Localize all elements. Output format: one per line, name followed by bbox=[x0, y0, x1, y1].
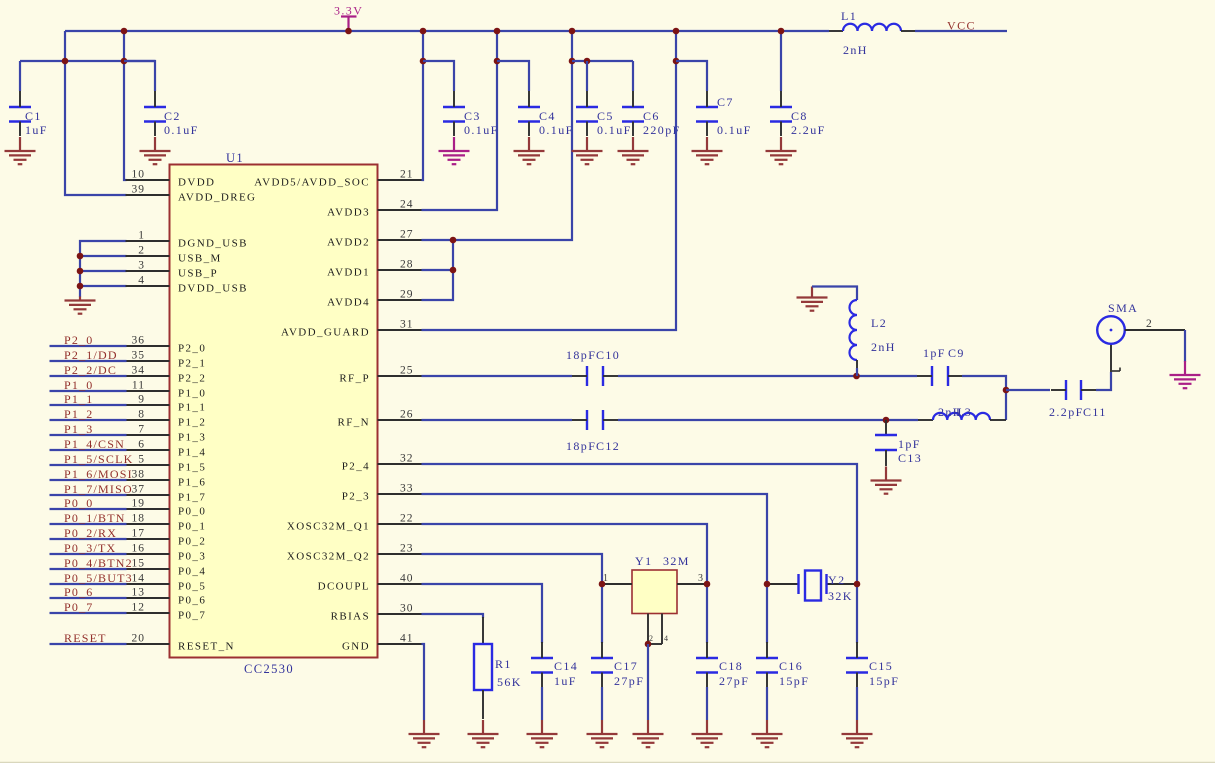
IC right pin stubs bbox=[378, 180, 422, 644]
svg-text:8: 8 bbox=[138, 409, 145, 421]
wire pin 28 to node bbox=[422, 269, 454, 271]
wire C11 to SMA bbox=[1096, 372, 1111, 390]
svg-text:XOSC32M_Q2: XOSC32M_Q2 bbox=[287, 551, 370, 563]
wire pin 41 to ground bbox=[422, 644, 425, 720]
connector SMA pin 1 stub bbox=[1110, 344, 1112, 372]
svg-text:1pF: 1pF bbox=[898, 437, 921, 451]
svg-text:XOSC32M_Q1: XOSC32M_Q1 bbox=[287, 521, 370, 533]
svg-text:L2: L2 bbox=[871, 316, 887, 330]
svg-text:0.1uF: 0.1uF bbox=[164, 123, 199, 137]
svg-text:18: 18 bbox=[132, 513, 146, 525]
svg-text:39: 39 bbox=[132, 184, 146, 196]
svg-text:L3: L3 bbox=[956, 405, 972, 419]
wire pin4 DVDD_USB bbox=[80, 285, 127, 287]
junction rail x781 bbox=[778, 28, 785, 35]
junction C5 bbox=[584, 58, 591, 65]
svg-text:15: 15 bbox=[132, 558, 146, 570]
svg-text:11: 11 bbox=[132, 380, 145, 392]
svg-text:P1_7: P1_7 bbox=[178, 492, 206, 504]
svg-text:P0_1: P0_1 bbox=[178, 521, 206, 533]
svg-text:AVDD_DREG: AVDD_DREG bbox=[178, 192, 256, 204]
svg-text:P0_0: P0_0 bbox=[178, 506, 206, 518]
svg-text:32: 32 bbox=[400, 453, 414, 465]
capacitor C13 bbox=[885, 420, 887, 435]
wire pin 21 to rail bbox=[422, 31, 424, 180]
svg-text:34: 34 bbox=[132, 365, 146, 377]
svg-text:P2_0: P2_0 bbox=[178, 343, 206, 355]
svg-text:23: 23 bbox=[400, 543, 414, 555]
svg-text:2nH: 2nH bbox=[843, 43, 868, 57]
svg-text:24: 24 bbox=[400, 199, 414, 211]
svg-text:C3: C3 bbox=[464, 109, 481, 123]
svg-text:AVDD2: AVDD2 bbox=[327, 237, 370, 249]
capacitor C6 bbox=[622, 107, 644, 122]
svg-text:P0_4: P0_4 bbox=[178, 566, 206, 578]
junction on rail at 3.3V bbox=[345, 28, 352, 35]
svg-text:6: 6 bbox=[138, 439, 145, 451]
svg-text:CC2530: CC2530 bbox=[244, 662, 294, 676]
wire pin 29 to node bbox=[422, 240, 454, 300]
svg-text:Y1: Y1 bbox=[635, 554, 652, 568]
svg-text:31: 31 bbox=[400, 319, 414, 331]
svg-text:P0_3: P0_3 bbox=[178, 551, 206, 563]
svg-text:VCC: VCC bbox=[947, 19, 976, 33]
svg-text:C7: C7 bbox=[717, 95, 734, 109]
svg-text:P0_6: P0_6 bbox=[178, 595, 206, 607]
wire C2 drop bbox=[124, 61, 155, 91]
svg-text:L1: L1 bbox=[841, 9, 857, 23]
svg-text:U1: U1 bbox=[226, 151, 244, 165]
svg-text:P0_5: P0_5 bbox=[178, 581, 206, 593]
wire R1 to ground bbox=[482, 690, 484, 719]
wire L2 top link bbox=[812, 287, 857, 301]
svg-text:P1_5: P1_5 bbox=[178, 462, 206, 474]
svg-text:C13: C13 bbox=[898, 451, 922, 465]
wire pin 22 to C18/Y1 pin3 bbox=[422, 524, 708, 643]
wire rail to pin 39 AVDD_DREG bbox=[65, 31, 127, 195]
svg-text:P0_6: P0_6 bbox=[64, 585, 93, 599]
svg-text:AVDD4: AVDD4 bbox=[327, 297, 370, 309]
bottom edge artifact bbox=[0, 761, 1215, 763]
svg-text:AVDD3: AVDD3 bbox=[327, 207, 370, 219]
svg-text:22: 22 bbox=[400, 513, 414, 525]
capacitor C2 bbox=[144, 107, 166, 122]
svg-text:4: 4 bbox=[664, 634, 668, 643]
svg-text:3: 3 bbox=[698, 573, 704, 584]
Y1 pin 1 stub bbox=[602, 583, 632, 585]
wire C10 to C9 bbox=[618, 375, 917, 377]
junction pins 28/29 bbox=[450, 267, 457, 274]
IC left pin numbers bbox=[132, 169, 146, 645]
svg-text:R1: R1 bbox=[495, 657, 512, 671]
capacitor C11 (series) bbox=[1066, 380, 1081, 400]
ground under C4 bbox=[514, 137, 545, 164]
svg-text:C16: C16 bbox=[779, 659, 803, 673]
ground at SMA (magenta) bbox=[1170, 361, 1201, 388]
ground under C3 (magenta) bbox=[439, 137, 470, 164]
net labels P2/P1/P0/RESET bbox=[64, 333, 133, 645]
svg-text:P1_3: P1_3 bbox=[64, 422, 93, 436]
ground under C18 bbox=[692, 720, 723, 747]
svg-text:32M: 32M bbox=[663, 554, 690, 568]
svg-text:17: 17 bbox=[132, 528, 146, 540]
ground under R1 bbox=[468, 720, 499, 747]
svg-text:DCOUPL: DCOUPL bbox=[318, 581, 370, 593]
wire C1 riser bbox=[19, 61, 21, 91]
svg-text:P0_2: P0_2 bbox=[178, 536, 206, 548]
svg-text:DGND_USB: DGND_USB bbox=[178, 238, 248, 250]
svg-text:P0_0: P0_0 bbox=[64, 496, 93, 510]
svg-text:P1_5/SCLK: P1_5/SCLK bbox=[64, 452, 133, 466]
svg-text:0.1uF: 0.1uF bbox=[597, 123, 632, 137]
crystal Y1 32M body bbox=[632, 570, 677, 614]
svg-text:12: 12 bbox=[132, 602, 146, 614]
Y1 case pins to ground bbox=[647, 614, 649, 645]
svg-text:P1_6/MOSI: P1_6/MOSI bbox=[64, 467, 133, 481]
wire pin1 DGND_USB to ground bus bbox=[80, 241, 127, 297]
svg-text:3.3V: 3.3V bbox=[334, 4, 363, 18]
svg-text:9: 9 bbox=[138, 394, 145, 406]
svg-text:C18: C18 bbox=[719, 659, 743, 673]
wire C9 to RF node bbox=[962, 376, 1006, 420]
wire pin 32 to C15/Y2 right bbox=[422, 464, 858, 643]
junction rail x572 bbox=[569, 28, 576, 35]
svg-text:56K: 56K bbox=[497, 675, 522, 689]
junction Y2 left bbox=[764, 581, 771, 588]
wire C8 drop from rail bbox=[780, 31, 782, 91]
svg-text:P2_1: P2_1 bbox=[178, 358, 206, 370]
svg-text:1: 1 bbox=[138, 230, 145, 242]
svg-text:P0_1/BTN: P0_1/BTN bbox=[64, 511, 126, 525]
wire RF node to C11 bbox=[1006, 389, 1050, 391]
capacitor C9 (series) bbox=[932, 366, 948, 386]
svg-text:27pF: 27pF bbox=[719, 674, 749, 688]
junction pins 27/28 bbox=[450, 237, 457, 244]
svg-text:GND: GND bbox=[342, 641, 370, 653]
svg-text:P2_1/DD: P2_1/DD bbox=[64, 348, 118, 362]
junction C13 tap bbox=[883, 417, 890, 424]
svg-text:1uF: 1uF bbox=[25, 123, 48, 137]
svg-text:C1: C1 bbox=[25, 109, 42, 123]
svg-text:27pF: 27pF bbox=[614, 674, 644, 688]
junction USB pin4 bbox=[77, 283, 84, 290]
ground under C7 bbox=[692, 137, 723, 164]
svg-text:P0_2/RX: P0_2/RX bbox=[64, 526, 117, 540]
svg-text:19: 19 bbox=[132, 498, 146, 510]
svg-text:2: 2 bbox=[138, 245, 145, 257]
junction rail x124 bbox=[121, 28, 128, 35]
junction Y1 pin1 bbox=[599, 581, 606, 588]
ground at L2 top bbox=[797, 287, 828, 311]
svg-text:RBIAS: RBIAS bbox=[331, 611, 370, 623]
capacitor C10 (series) bbox=[587, 366, 603, 386]
svg-text:C10: C10 bbox=[596, 348, 620, 362]
wire C5 drop bbox=[586, 61, 588, 91]
svg-text:C4: C4 bbox=[539, 109, 556, 123]
wire pin 23 to C17/Y1 pin1 bbox=[422, 554, 603, 643]
svg-text:RF_N: RF_N bbox=[338, 417, 371, 429]
svg-text:P0_5/BUT3: P0_5/BUT3 bbox=[64, 571, 133, 585]
ground under C15 bbox=[842, 720, 873, 747]
crystal Y2 32K bbox=[767, 583, 799, 585]
svg-text:P2_2/DC: P2_2/DC bbox=[64, 363, 117, 377]
ground under C17 bbox=[587, 720, 618, 747]
wire pin 33 to C16/Y2 left bbox=[422, 494, 768, 643]
svg-text:P2_4: P2_4 bbox=[342, 461, 370, 473]
power symbol 3.3V bbox=[341, 17, 357, 32]
svg-text:32K: 32K bbox=[828, 589, 853, 603]
svg-text:37: 37 bbox=[132, 484, 146, 496]
capacitor C15 bbox=[846, 658, 868, 673]
junction C1 link x65 bbox=[62, 58, 69, 65]
capacitor C3 bbox=[443, 107, 465, 122]
svg-text:0.1uF: 0.1uF bbox=[464, 123, 499, 137]
wire C15 to ground bbox=[856, 687, 858, 720]
svg-text:AVDD_GUARD: AVDD_GUARD bbox=[281, 327, 370, 339]
svg-text:C11: C11 bbox=[1083, 405, 1107, 419]
ground under C2 bbox=[140, 137, 171, 164]
svg-text:P1_1: P1_1 bbox=[64, 392, 93, 406]
ground under C1 bbox=[5, 137, 36, 164]
junction Y1 pin3 bbox=[704, 581, 711, 588]
IC left pin names bbox=[178, 177, 256, 653]
svg-text:C14: C14 bbox=[554, 659, 578, 673]
capacitor C14 bbox=[531, 658, 553, 673]
svg-text:RF_P: RF_P bbox=[339, 373, 370, 385]
wire C14 to ground bbox=[541, 687, 543, 720]
connector SMA body bbox=[1097, 316, 1125, 344]
wire rail to pin 10 DVDD bbox=[124, 31, 127, 180]
svg-text:C9: C9 bbox=[948, 346, 965, 360]
svg-text:10: 10 bbox=[132, 169, 146, 181]
wire SMA pin 2 to ground bbox=[1184, 330, 1186, 362]
svg-text:C2: C2 bbox=[164, 109, 181, 123]
junction rail x497 bbox=[494, 28, 501, 35]
wire RF_N pin 26 bbox=[422, 419, 573, 421]
ground USB bus bbox=[65, 297, 96, 314]
svg-text:20: 20 bbox=[132, 633, 146, 645]
svg-text:RESET: RESET bbox=[64, 631, 107, 645]
wire pin 27 to rail bbox=[422, 31, 573, 240]
svg-text:2.2pF: 2.2pF bbox=[1049, 405, 1084, 419]
junction tap C7 bbox=[673, 58, 680, 65]
svg-text:P0_4/BTN2: P0_4/BTN2 bbox=[64, 556, 133, 570]
svg-text:USB_M: USB_M bbox=[178, 253, 222, 265]
ground under C13 bbox=[871, 467, 902, 494]
svg-text:P1_7/MISO: P1_7/MISO bbox=[64, 482, 133, 496]
junction USB pin2 bbox=[77, 253, 84, 260]
wire VCC bbox=[915, 30, 1007, 32]
wire 3.3V power rail bbox=[65, 30, 829, 32]
svg-text:13: 13 bbox=[132, 587, 146, 599]
inductor L3 bbox=[918, 419, 933, 421]
capacitor C17 bbox=[591, 658, 613, 673]
capacitor C18 bbox=[696, 658, 718, 673]
wire C12 to L3 bbox=[618, 419, 918, 421]
capacitor C1 bbox=[9, 107, 31, 122]
svg-text:41: 41 bbox=[400, 633, 414, 645]
svg-text:P1_2: P1_2 bbox=[178, 417, 206, 429]
svg-text:2nH: 2nH bbox=[871, 340, 896, 354]
svg-text:USB_P: USB_P bbox=[178, 268, 218, 280]
svg-text:P1_0: P1_0 bbox=[64, 378, 93, 392]
svg-text:5: 5 bbox=[138, 454, 145, 466]
inductor L1 bbox=[829, 30, 843, 32]
capacitor C4 bbox=[518, 107, 540, 122]
svg-text:36: 36 bbox=[132, 335, 146, 347]
ground under Y1 bbox=[633, 720, 664, 747]
svg-text:P1_4: P1_4 bbox=[178, 447, 206, 459]
svg-text:C6: C6 bbox=[643, 109, 660, 123]
svg-text:P1_0: P1_0 bbox=[178, 388, 206, 400]
svg-text:SMA: SMA bbox=[1108, 301, 1138, 315]
svg-text:AVDD1: AVDD1 bbox=[327, 267, 370, 279]
ground under C5 bbox=[572, 137, 603, 164]
wire pin2 USB_M bbox=[80, 255, 127, 257]
svg-text:DVDD_USB: DVDD_USB bbox=[178, 283, 248, 295]
ground under C16 bbox=[752, 720, 783, 747]
wire pin 31 to rail bbox=[422, 31, 677, 330]
wire C1-C2 top link bbox=[20, 60, 155, 62]
junction C2 link x124 bbox=[121, 58, 128, 65]
IC U1 CC2530 body bbox=[170, 165, 378, 658]
svg-text:C17: C17 bbox=[614, 659, 638, 673]
svg-text:P1_4/CSN: P1_4/CSN bbox=[64, 437, 125, 451]
svg-text:1uF: 1uF bbox=[554, 674, 577, 688]
svg-text:P1_6: P1_6 bbox=[178, 477, 206, 489]
junction L2 bottom bbox=[853, 373, 860, 380]
svg-text:DVDD: DVDD bbox=[178, 177, 215, 189]
net label wires P2/P1/P0/RESET bbox=[50, 346, 127, 644]
svg-text:18pF: 18pF bbox=[566, 348, 596, 362]
svg-text:AVDD5/AVDD_SOC: AVDD5/AVDD_SOC bbox=[254, 177, 370, 189]
junction tap C4 bbox=[494, 58, 501, 65]
svg-text:33: 33 bbox=[400, 483, 414, 495]
ground under C8 bbox=[766, 137, 797, 164]
junction Y2 right bbox=[854, 581, 861, 588]
wire tap to C7 bbox=[676, 61, 707, 91]
wire RF_P pin 25 bbox=[422, 375, 573, 377]
svg-text:25: 25 bbox=[400, 365, 414, 377]
svg-text:P2_2: P2_2 bbox=[178, 373, 206, 385]
svg-text:27: 27 bbox=[400, 229, 414, 241]
svg-text:14: 14 bbox=[132, 573, 146, 585]
svg-text:15pF: 15pF bbox=[779, 674, 809, 688]
wire pin3 USB_P bbox=[80, 270, 127, 272]
svg-text:P2_0: P2_0 bbox=[64, 333, 93, 347]
inductor L2 bbox=[850, 300, 858, 360]
junction Y1 case bbox=[645, 641, 652, 648]
svg-text:2.2uF: 2.2uF bbox=[791, 123, 826, 137]
svg-text:C8: C8 bbox=[791, 109, 808, 123]
svg-text:P1_1: P1_1 bbox=[178, 402, 206, 414]
svg-text:0.1uF: 0.1uF bbox=[717, 123, 752, 137]
junction tap C5 left bbox=[569, 58, 576, 65]
svg-text:28: 28 bbox=[400, 259, 414, 271]
svg-text:Y2: Y2 bbox=[828, 573, 845, 587]
wire C18 to ground bbox=[706, 687, 708, 720]
svg-text:29: 29 bbox=[400, 289, 414, 301]
wire tap C5-C6 bbox=[572, 60, 633, 62]
junction rail x423 bbox=[420, 28, 427, 35]
Y1 pin 3 stub bbox=[677, 583, 707, 585]
svg-text:30: 30 bbox=[400, 603, 414, 615]
wire pin 24 to rail bbox=[422, 31, 498, 210]
svg-text:P1_3: P1_3 bbox=[178, 432, 206, 444]
ground under C6 bbox=[618, 137, 649, 164]
wire C17 to ground bbox=[601, 687, 603, 720]
wire Y1 case to ground bbox=[647, 644, 649, 720]
svg-text:C12: C12 bbox=[596, 439, 620, 453]
IC right pin numbers bbox=[400, 169, 414, 645]
svg-text:C15: C15 bbox=[869, 659, 893, 673]
svg-text:2: 2 bbox=[1146, 318, 1153, 330]
ground pin 41 bbox=[409, 720, 440, 747]
wire C6 drop bbox=[632, 61, 634, 91]
svg-text:40: 40 bbox=[400, 573, 414, 585]
capacitor C7 bbox=[696, 107, 718, 122]
IC right pin names bbox=[254, 177, 370, 653]
IC left pin stubs bbox=[126, 180, 170, 644]
svg-text:1pF: 1pF bbox=[923, 346, 946, 360]
svg-text:4: 4 bbox=[138, 275, 145, 287]
junction tap C3 bbox=[420, 58, 427, 65]
wire tap to C4 bbox=[497, 61, 529, 91]
svg-text:P0_3/TX: P0_3/TX bbox=[64, 541, 116, 555]
capacitor C16 bbox=[756, 658, 778, 673]
ground under C14 bbox=[527, 720, 558, 747]
svg-text:P0_7: P0_7 bbox=[178, 610, 206, 622]
junction USB pin3 bbox=[77, 268, 84, 275]
svg-text:26: 26 bbox=[400, 409, 414, 421]
svg-text:3: 3 bbox=[138, 260, 145, 272]
capacitor C5 bbox=[576, 107, 598, 122]
connector SMA pin 2 stub bbox=[1125, 329, 1185, 331]
svg-text:38: 38 bbox=[132, 469, 146, 481]
svg-text:C5: C5 bbox=[597, 109, 614, 123]
svg-text:15pF: 15pF bbox=[869, 674, 899, 688]
svg-text:P1_2: P1_2 bbox=[64, 407, 93, 421]
svg-text:0.1uF: 0.1uF bbox=[539, 123, 574, 137]
wire C16 to ground bbox=[766, 687, 768, 720]
svg-text:18pF: 18pF bbox=[566, 439, 596, 453]
resistor R1 bbox=[474, 644, 492, 690]
svg-text:35: 35 bbox=[132, 350, 146, 362]
capacitor C8 bbox=[770, 107, 792, 122]
junction rail x676 bbox=[673, 28, 680, 35]
wire pin 40 to C14 bbox=[422, 584, 543, 643]
svg-text:RESET_N: RESET_N bbox=[178, 641, 235, 653]
svg-text:P2_3: P2_3 bbox=[342, 491, 370, 503]
svg-text:16: 16 bbox=[132, 543, 146, 555]
junction RF node bbox=[1003, 387, 1010, 394]
capacitor C12 (series) bbox=[587, 410, 603, 430]
svg-text:7: 7 bbox=[138, 424, 145, 436]
wire pin 30 to R1 bbox=[422, 614, 484, 618]
svg-text:21: 21 bbox=[400, 169, 414, 181]
svg-text:P0_7: P0_7 bbox=[64, 600, 93, 614]
wire tap to C3 bbox=[423, 61, 454, 91]
